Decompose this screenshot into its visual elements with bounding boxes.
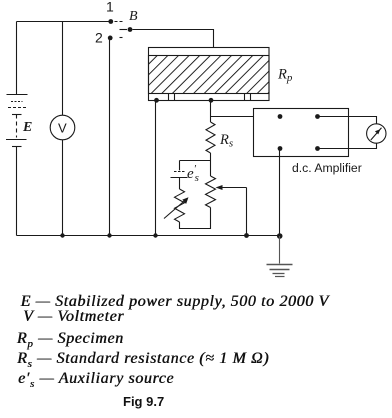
- specimen Rp outer box: [149, 48, 270, 101]
- variable resistor: [175, 189, 185, 222]
- wire top rail from battery to node 1: [17, 21, 112, 23]
- svg-text:2: 2: [95, 30, 103, 46]
- wire Rs bottom: [210, 153, 212, 161]
- resistor Rs: [206, 122, 215, 153]
- legend line V: [23, 308, 124, 326]
- legend line Rs: [17, 350, 269, 373]
- wire e's to variable resistor: [179, 178, 181, 190]
- wire branch to amplifier input: [211, 116, 281, 118]
- wire voltmeter branch lower: [62, 140, 64, 236]
- specimen Rp top electrode line: [149, 55, 270, 57]
- specimen guard gap ticks left: [168, 94, 170, 101]
- d.c. amplifier box: [254, 109, 349, 157]
- node 1: [108, 19, 113, 24]
- potentiometer wiper arrow: [221, 187, 247, 189]
- switch pivot B: [128, 27, 133, 32]
- junction ground node: [277, 233, 283, 239]
- wire amplifier output top to meter: [318, 117, 377, 124]
- junction specimen bottom-left: [154, 98, 159, 103]
- svg-text:B: B: [129, 9, 138, 24]
- wire e's left branch upper: [179, 161, 181, 171]
- switch blade dash at position 1: [115, 21, 124, 23]
- amplifier terminal bottom-right: [315, 146, 320, 151]
- wire amplifier output bottom to meter: [318, 143, 377, 148]
- wire wiper down to rail: [246, 188, 248, 236]
- amplifier terminal top-left: [278, 114, 283, 119]
- junction voltmeter-rail: [60, 233, 64, 237]
- junction at specimen top plate: [210, 47, 215, 52]
- svg-text:Rp: Rp: [277, 67, 293, 85]
- wire left battery branch upper: [16, 22, 18, 95]
- wire voltmeter branch upper: [62, 22, 64, 116]
- ground: [267, 236, 293, 277]
- meter: [367, 124, 386, 143]
- wire from B to specimen top: [133, 30, 214, 49]
- auxiliary source e's plates: [174, 171, 186, 173]
- specimen Rp hatched dielectric: [149, 56, 270, 94]
- potentiometer resistor: [206, 176, 216, 208]
- meter needle: [371, 128, 382, 140]
- specimen guard gap ticks right: [244, 94, 246, 101]
- wire loop right upper: [210, 161, 212, 177]
- legend line e's: [18, 370, 174, 393]
- svg-text:V: V: [58, 121, 67, 136]
- variable resistor arrow: [164, 200, 186, 219]
- wire node 2 branch down: [109, 38, 111, 236]
- specimen Rp bottom electrode line: [149, 93, 270, 95]
- wire left battery branch lower: [16, 147, 18, 236]
- junction wiper-rail: [244, 233, 249, 238]
- amplifier terminal top-right: [315, 114, 320, 119]
- voltmeter V: [50, 115, 75, 140]
- amplifier terminal bottom-left: [278, 146, 283, 151]
- legend line E: [21, 293, 329, 311]
- wire specimen bottom-left down to rail: [155, 100, 157, 235]
- switch blade dash at position 2: [120, 37, 124, 39]
- svg-text:e′s: e′s: [187, 163, 199, 184]
- wire specimen center down to Rs: [210, 100, 212, 122]
- junction node2-rail: [107, 233, 111, 237]
- svg-text:d.c. Amplifier: d.c. Amplifier: [292, 161, 362, 175]
- svg-text:E: E: [22, 120, 32, 135]
- node 2: [108, 36, 113, 41]
- wire amplifier bottom-left to ground: [279, 149, 281, 237]
- caption Fig 9.7: [123, 394, 164, 409]
- junction specimen-left rail: [153, 233, 157, 237]
- svg-text:Rs: Rs: [219, 132, 233, 150]
- junction specimen bottom-center: [209, 98, 214, 103]
- wire e's loop top: [180, 160, 211, 162]
- svg-text:1: 1: [106, 0, 114, 15]
- legend line Rp: [17, 330, 124, 353]
- wire loop bottom: [180, 208, 211, 229]
- battery E: [6, 95, 28, 147]
- bottom rail wire: [17, 235, 280, 237]
